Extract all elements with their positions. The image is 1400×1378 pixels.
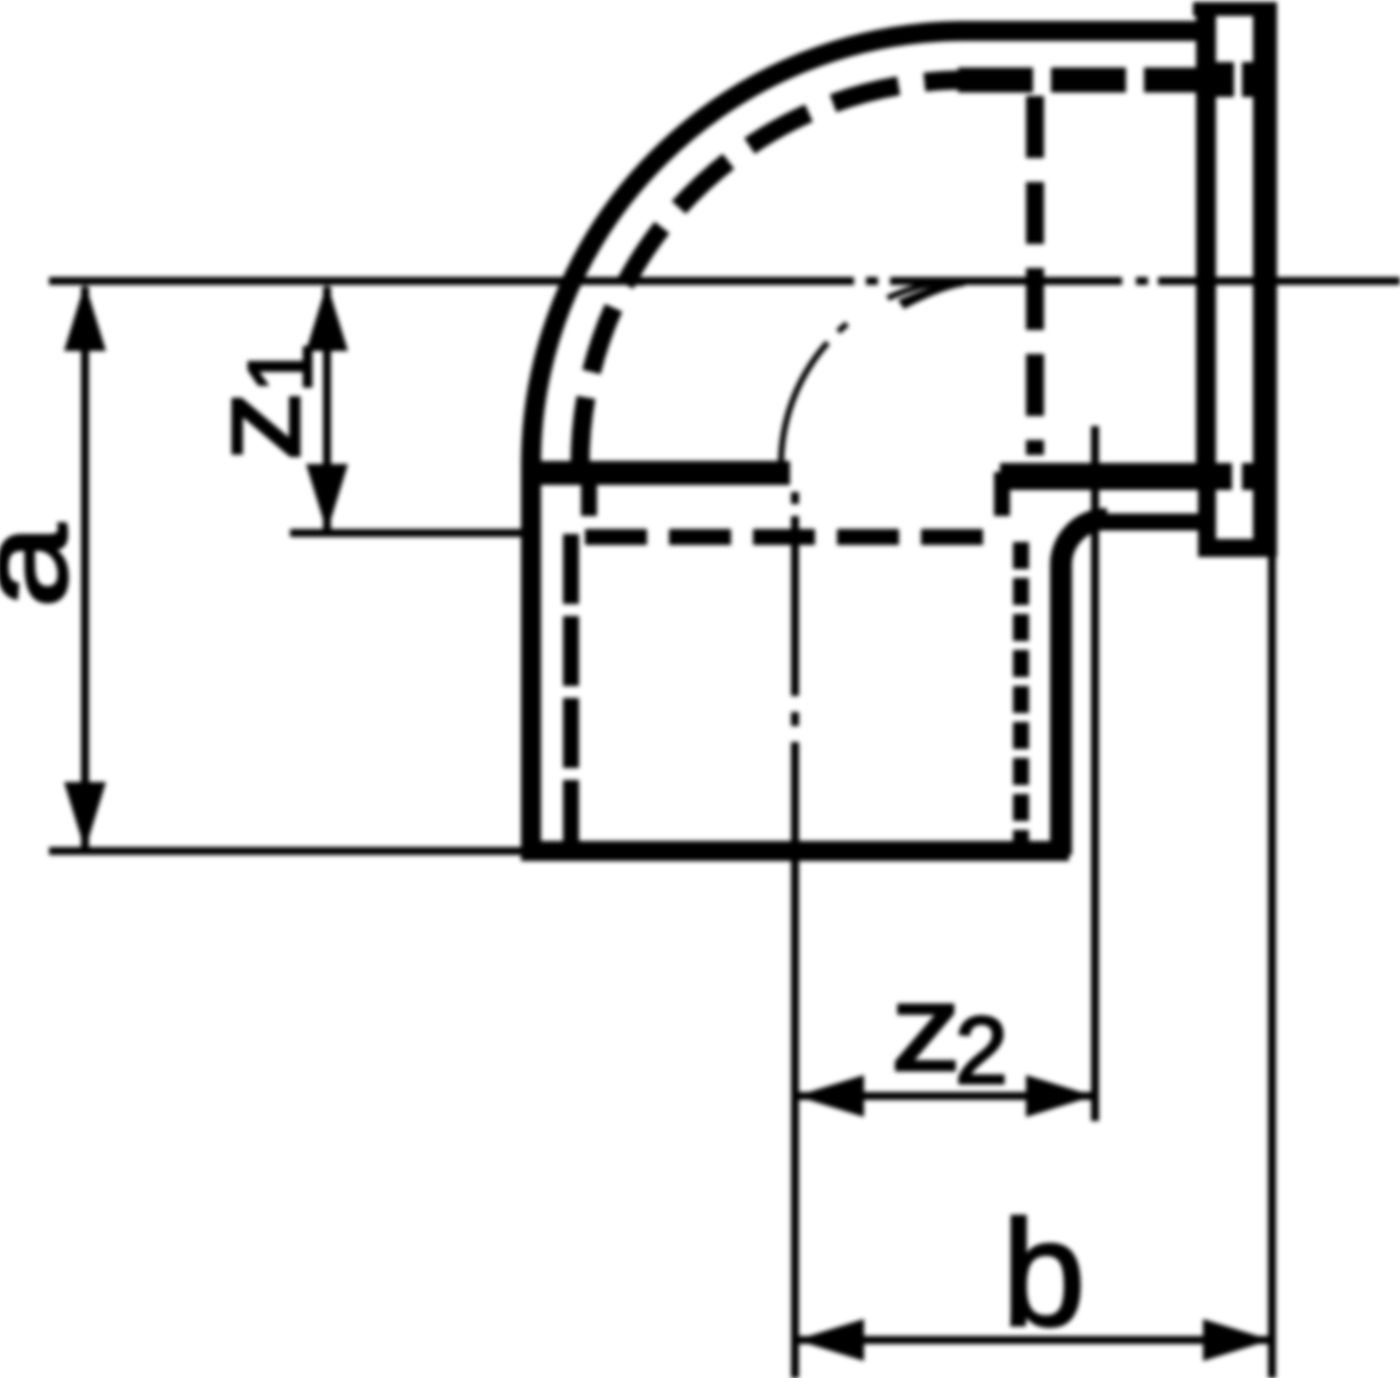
dimension line z1 bbox=[323, 287, 331, 529]
bottom cap (mouth bead) of bottom socket bbox=[521, 841, 1069, 861]
right socket top shoulder band bbox=[1202, 62, 1234, 97]
wedge where inner arc meets centerline bbox=[898, 278, 965, 309]
arrowhead z2 left bbox=[796, 1075, 864, 1117]
right socket bottom band bbox=[1000, 463, 1232, 490]
a bottom reference line bbox=[49, 847, 521, 855]
b right extension line bbox=[1268, 557, 1276, 1378]
arrowhead b right bbox=[1203, 1319, 1271, 1361]
arrowhead z1 down bbox=[306, 464, 348, 532]
left bead stub of bottom socket bbox=[581, 472, 597, 516]
top outline of right arm bbox=[958, 21, 1205, 41]
right socket right wall (mouth bead) bbox=[1253, 2, 1277, 557]
right socket bottom cap bbox=[1212, 539, 1277, 557]
z1 lower reference line bbox=[290, 529, 523, 537]
dimension line b bbox=[797, 1336, 1270, 1344]
right socket left wall bbox=[1196, 2, 1216, 490]
right socket top cap bbox=[1193, 2, 1277, 16]
z2 right extension line bbox=[1091, 426, 1099, 1121]
arrowhead b left bbox=[796, 1319, 864, 1361]
arrowhead z1 up bbox=[306, 283, 348, 351]
right bead stub of bottom socket bbox=[994, 472, 1010, 516]
svg-text:b: b bbox=[1002, 1189, 1085, 1357]
inner right wall of bottom socket with fillet and underside of right arm bbox=[1061, 519, 1107, 855]
dashed thread arc (hidden) bbox=[580, 80, 965, 465]
svg-text:a: a bbox=[0, 523, 93, 608]
svg-text:z: z bbox=[891, 960, 961, 1097]
svg-text:2: 2 bbox=[955, 998, 1008, 1104]
inner bore arc of elbow bbox=[781, 281, 965, 465]
svg-text:1: 1 bbox=[231, 343, 331, 393]
arrowhead a down bbox=[64, 782, 106, 850]
dimension line z2 bbox=[797, 1092, 1093, 1100]
dashed top thread line of right socket bbox=[958, 68, 1196, 93]
shoulder band of bottom socket bbox=[521, 461, 790, 485]
label z1 bbox=[187, 343, 331, 461]
bottom outline of right arm bbox=[1098, 514, 1207, 531]
svg-text:z: z bbox=[187, 391, 326, 461]
horizontal centerline / a top reference bbox=[49, 277, 1400, 285]
outer arc of elbow body bbox=[531, 31, 965, 465]
dashed hidden shoulder line of bottom socket bbox=[585, 529, 1003, 545]
right socket bottom-left step bbox=[1198, 485, 1216, 557]
dimension line a bbox=[81, 287, 89, 847]
left outer wall of bottom socket bbox=[521, 459, 541, 855]
vertical centerline of bottom socket / extension bbox=[791, 492, 799, 1378]
dashed hidden shoulder line of right socket bbox=[1026, 96, 1044, 455]
dashed right thread line of bottom socket bbox=[1013, 542, 1029, 841]
arrowhead z2 right bbox=[1026, 1075, 1094, 1117]
arrowhead a up bbox=[64, 283, 106, 351]
dashed left thread line of bottom socket bbox=[563, 534, 579, 841]
